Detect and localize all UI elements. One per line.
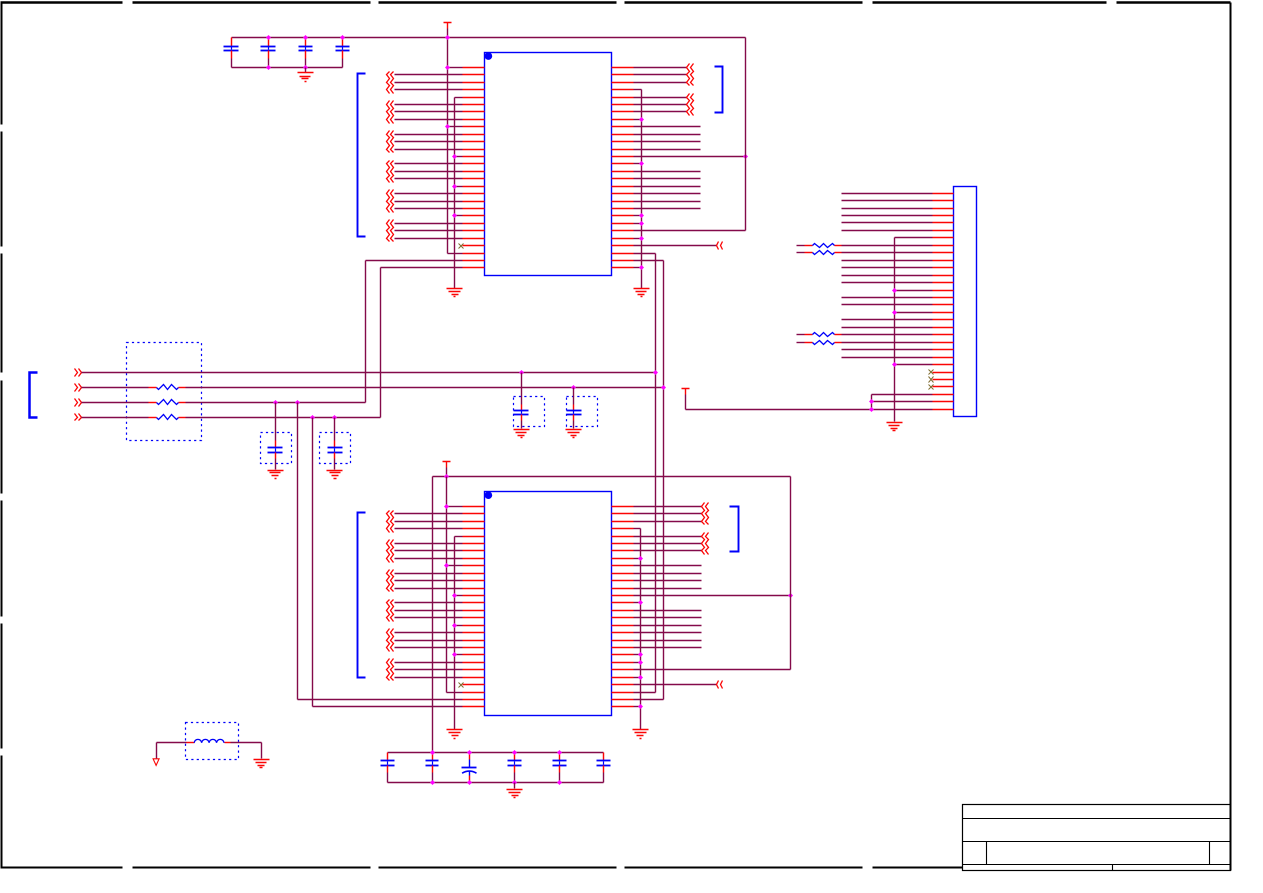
- capacitor C14 (dashed box): [567, 388, 598, 429]
- port chevrons left edge: [75, 369, 82, 421]
- wire U1 pin27 to U2 pin27: [634, 261, 664, 700]
- port chevron U2 right pin25: [634, 681, 723, 689]
- ground (C12): [327, 471, 343, 479]
- wire GND bus U2 left: [452, 537, 463, 730]
- capacitor C2: [261, 38, 276, 68]
- wire net row4: [186, 415, 381, 420]
- bracket (U2 right ports): [730, 507, 739, 552]
- capacitor C10: [597, 753, 611, 783]
- port chevrons U1 left group 2: [387, 101, 463, 124]
- resistor R7 (J1 row21): [797, 341, 933, 345]
- junction dots cap bank 1: [266, 35, 345, 70]
- wire net row3 drop to U2 pin27: [298, 403, 463, 700]
- resistor R2 (row3): [82, 400, 186, 405]
- wire U1 pin26 to U2 pin26: [634, 254, 656, 693]
- power VCC symbol (U1): [444, 23, 452, 38]
- bracket (U2 left ports): [358, 513, 366, 678]
- no-connect x (U1 left pin 25): [459, 244, 464, 249]
- bracket (left edge port): [30, 373, 38, 418]
- port chevrons U1 left group 3: [387, 131, 463, 153]
- wire VCC bus U1 left: [445, 35, 463, 254]
- ground (cap bank 2): [507, 783, 523, 798]
- wire net row3: [186, 400, 366, 405]
- wire net row2 (to U1/U2 p27 column): [186, 385, 667, 390]
- resistor R5 (J1 row9): [797, 251, 933, 255]
- ground (U1 left): [447, 289, 463, 297]
- ground (C14): [566, 430, 582, 438]
- port chevrons U2 left group 3: [387, 570, 463, 592]
- capacitor C11 (dashed box): [261, 403, 292, 470]
- U2 right pins: [612, 507, 634, 707]
- wire VCC bus U2 left: [444, 477, 463, 693]
- port chevrons U2 left group 5: [387, 629, 463, 652]
- wire cap bank 2 top rail: [388, 752, 604, 754]
- capacitor C6: [426, 753, 439, 783]
- capacitor C8: [508, 753, 522, 783]
- wire net row4 drop to U2 pin28: [313, 418, 463, 707]
- power arrow (L1 left): [153, 743, 159, 766]
- wire cap bank 1 bottom rail: [232, 67, 343, 69]
- ground (C11): [268, 471, 284, 479]
- port chevrons U1 left group 6: [387, 220, 463, 242]
- bracket (U1 right ports): [715, 67, 723, 113]
- wire VCC loop right (U1): [634, 38, 746, 231]
- junction dots cap bank 2: [430, 750, 562, 785]
- wire cap bank 2 bottom rail: [388, 782, 604, 784]
- ground (U2 left): [447, 730, 463, 739]
- IC U2: [485, 491, 612, 715]
- wire U1 left pin27 to net row3: [366, 261, 463, 403]
- wire net row1 (to U1/U2 p26 column): [82, 370, 659, 375]
- capacitor C3: [299, 38, 313, 68]
- port chevrons U2 right group 1: [634, 503, 709, 525]
- wire J1 rows 10-13: [842, 261, 933, 283]
- wire U1 pin13 to VCC loop: [634, 154, 749, 159]
- wire GND bus J1: [892, 238, 933, 422]
- wire U2 pin13 to VCC loop: [634, 593, 794, 598]
- connector J1: [954, 187, 977, 417]
- port chevrons U2 left group 4: [387, 600, 463, 622]
- capacitor C13 (dashed box): [514, 373, 545, 429]
- inductor L1 (dashed box): [157, 723, 262, 760]
- port chevron U1 right pin25: [634, 242, 723, 250]
- capacitor C12 (dashed box): [320, 418, 351, 470]
- capacitor C7 (polarized): [462, 753, 477, 783]
- power VCC symbol (U2): [443, 462, 451, 477]
- ground (C13): [514, 430, 530, 438]
- capacitor C1: [224, 38, 239, 68]
- U2 left pins: [463, 507, 485, 707]
- port chevrons U1 right group 1: [634, 64, 694, 86]
- wire GND bus U1 right: [634, 90, 645, 289]
- wire U1 left pin28 to net row4: [381, 268, 463, 418]
- ground (J1 bus): [887, 423, 903, 431]
- port chevrons U2 left group 1: [387, 511, 463, 533]
- port chevrons U1 left group 5: [387, 190, 463, 213]
- port chevrons U1 left group 1: [387, 72, 463, 94]
- wire VCC rail (top): [232, 37, 746, 39]
- port chevrons U2 right group 2: [634, 533, 709, 555]
- capacitor C5: [381, 753, 395, 783]
- ground (U2 right): [633, 730, 649, 739]
- wire VCC to J1 rows 28-30: [686, 395, 933, 413]
- wire GND bus U2 right: [634, 529, 644, 730]
- title block: [963, 805, 1231, 871]
- port chevrons U1 left group 4: [387, 161, 463, 183]
- capacitor C4: [336, 38, 350, 68]
- wire J1 rows 15-19,22,23: [842, 298, 933, 358]
- wire bus U1 right free nets: [634, 127, 701, 209]
- no-connect x (U2 left pin 25): [459, 683, 464, 688]
- ground (U1 right): [634, 289, 650, 297]
- wire VCC rail U2 (top): [433, 474, 791, 753]
- port chevrons U2 left group 2: [387, 540, 463, 563]
- resistor network box (dashed): [127, 343, 202, 441]
- U1 left pins: [463, 68, 485, 268]
- IC U1: [485, 52, 612, 275]
- power VCC symbol (J1): [682, 389, 690, 410]
- no-connect x (J1 rows 25-27): [929, 370, 934, 390]
- resistor R3 (row4): [82, 415, 186, 420]
- wire GND bus U1 left: [452, 98, 463, 289]
- ground (L1 right): [254, 743, 270, 768]
- bracket (U1 left ports): [358, 74, 366, 237]
- J1 pins: [933, 194, 954, 410]
- ground (cap bank 1): [298, 68, 314, 82]
- capacitor C9: [553, 753, 567, 783]
- port chevrons U1 right group 2: [634, 94, 694, 116]
- wire bus U2 right free nets: [634, 566, 702, 648]
- port chevrons U2 left group 6: [387, 659, 463, 681]
- resistor R6 (J1 row20): [797, 333, 933, 337]
- wire VCC loop right (U2): [634, 477, 791, 670]
- wire J1 rows 1-6: [842, 194, 933, 231]
- U1 right pins: [612, 68, 634, 268]
- resistor R4 (J1 row8): [797, 244, 933, 248]
- resistor R1 (row2): [82, 385, 186, 390]
